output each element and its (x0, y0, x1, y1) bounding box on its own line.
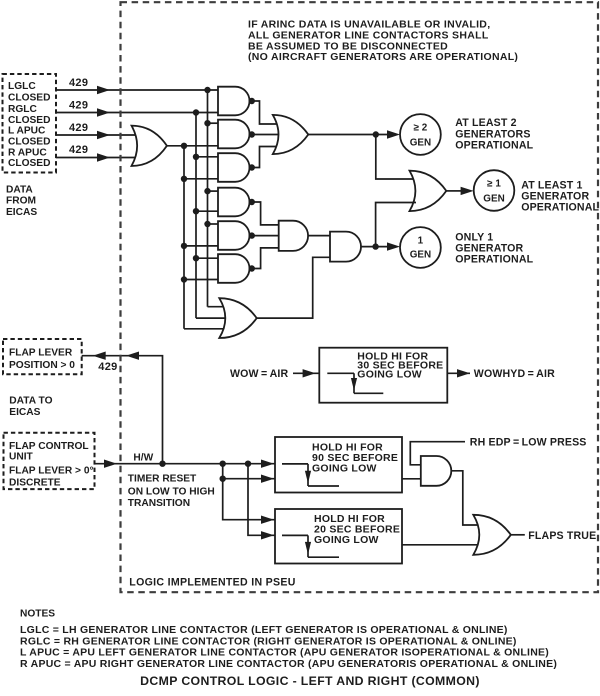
junction dot bus2 G4 tap (193, 208, 199, 214)
svg-text:L APUC: L APUC (8, 126, 46, 137)
wire G5 output to AND-A input2 (250, 235, 279, 237)
svg-text:R APUC = APU RIGHT GENERATOR L: R APUC = APU RIGHT GENERATOR LINE CONTAC… (20, 658, 557, 670)
wire bus1 to OR-big bottom input (184, 328, 230, 330)
junction dot bus1 G3 tap (181, 176, 187, 182)
wire OR1 output to GE2 circle (308, 134, 388, 136)
svg-text:1: 1 (418, 236, 424, 247)
wire bus1 tap to G5 bottom (184, 245, 218, 247)
wire G2 output to OR1 input2 (250, 134, 281, 136)
circle 1 GEN (400, 227, 441, 268)
timer symbol box90 low level (308, 485, 339, 487)
timer symbol box30 low level (354, 392, 383, 394)
svg-text:LGLC = LH GENERATOR LINE CONTA: LGLC = LH GENERATOR LINE CONTACTOR (LEFT… (20, 624, 508, 636)
arrow on R APUC wire (97, 153, 110, 161)
svg-text:FROM: FROM (6, 195, 36, 206)
arrow into 1GEN circle (387, 242, 400, 250)
wire OR-in output to gate G2 (166, 145, 218, 147)
wire bus1 tap to G3 bottom (184, 178, 218, 180)
and-gate G4 (218, 188, 250, 217)
svg-text:NOTES: NOTES (20, 609, 55, 620)
wire G4 output to AND-A input1 (250, 202, 279, 225)
svg-text:FLAP LEVER > 0°: FLAP LEVER > 0° (9, 466, 94, 477)
arrow into box90 input1 (261, 460, 274, 468)
arrow left mid 429 line (126, 352, 139, 360)
junction dot G6 output (249, 265, 255, 271)
svg-text:GOING LOW: GOING LOW (312, 462, 377, 474)
arrow into box20 input1 (261, 516, 274, 524)
timer symbol box20 high level (282, 534, 308, 536)
svg-text:OPERATIONAL: OPERATIONAL (455, 254, 533, 266)
box20 HOLD HI 20 SEC (275, 509, 402, 564)
node bus1 APU vertical (183, 146, 185, 329)
wire bus1 tap to G6 bottom (184, 279, 218, 281)
svg-text:429: 429 (69, 77, 88, 89)
svg-text:FLAP CONTROL: FLAP CONTROL (9, 441, 89, 452)
svg-text:RH EDP = LOW PRESS: RH EDP = LOW PRESS (470, 437, 587, 449)
svg-text:GEN: GEN (483, 193, 504, 204)
timer symbol box90 down arrow (305, 471, 311, 484)
box30 HOLD HI 30 SEC (319, 348, 447, 403)
wire branch B vertical to box20 input2 (248, 464, 276, 536)
circle GE2 GEN (400, 114, 441, 155)
or-gate OR1 (273, 115, 309, 154)
junction dot 1GEN branch (372, 243, 378, 249)
svg-text:GOING LOW: GOING LOW (314, 534, 379, 546)
or-gate OR3 (473, 515, 511, 555)
svg-text:POSITION > 0: POSITION > 0 (9, 360, 75, 371)
svg-text:≥ 1: ≥ 1 (487, 179, 501, 190)
box90 HOLD HI 90 SEC (275, 437, 402, 493)
and-gate AND-C (421, 456, 451, 486)
and-gate G2 (218, 120, 250, 149)
wire bus2 tap to G6 top (196, 257, 218, 259)
and-gate G6 (218, 254, 249, 283)
timer symbol box20 low level (308, 556, 339, 558)
wire branch A vertical (223, 464, 276, 520)
arrow on RGLC wire (97, 108, 110, 116)
junction dot bus1 G6 tap (181, 276, 187, 282)
fcu dashed box FLAP CONTROL UNIT (4, 433, 95, 489)
wire GE2 branch down to OR2 input1 (376, 135, 416, 180)
svg-text:≥ 2: ≥ 2 (414, 123, 428, 134)
svg-text:CLOSED: CLOSED (8, 93, 50, 104)
wire bus2 tap to G3 top (196, 156, 218, 158)
wire WOW=AIR into box30 (293, 372, 319, 374)
junction dot bus2 G3 tap (193, 154, 199, 160)
svg-text:AT LEAST 2: AT LEAST 2 (455, 117, 516, 129)
junction dot G5 output (249, 232, 255, 238)
svg-text:DISCRETE: DISCRETE (9, 478, 61, 489)
junction dot HW branch A (220, 461, 226, 467)
junction dot bus3 G5 tap (204, 221, 210, 227)
wire R APUC 429 (56, 157, 140, 159)
svg-text:EICAS: EICAS (9, 407, 40, 418)
junction dot G3 output (249, 164, 255, 170)
svg-text:FLAP LEVER: FLAP LEVER (9, 348, 73, 359)
wire AND-A output to AND-B input1 (308, 235, 330, 237)
wire bus3 tap to G5 top (208, 223, 219, 225)
svg-text:EICAS: EICAS (6, 207, 37, 218)
svg-text:RGLC: RGLC (8, 104, 38, 115)
wire bus2 to OR-big middle input (196, 317, 232, 319)
pseu dashed box border (121, 2, 599, 592)
svg-text:CLOSED: CLOSED (8, 158, 50, 169)
junction dot bus3 G2 tap (204, 120, 210, 126)
arrow left into flap-lever box (93, 352, 106, 360)
svg-text:(NO AIRCRAFT GENERATORS ARE OP: (NO AIRCRAFT GENERATORS ARE OPERATIONAL) (248, 51, 518, 63)
flap-lever dashed box FLAP LEVER POSITION (3, 339, 82, 374)
arrow WOWHYD (457, 369, 470, 377)
arrow on LGLC wire (97, 86, 110, 94)
junction dot bus3 G4 tap (204, 188, 210, 194)
arrow into box90 input2 (261, 475, 274, 483)
junction dot GE2 branch (373, 131, 379, 137)
and-gate G3 (218, 153, 250, 182)
wire H/W main line (95, 463, 277, 465)
svg-text:DATA TO: DATA TO (9, 395, 52, 406)
timer symbol box20 drop edge (307, 535, 309, 557)
arrow into box20 input2 (261, 531, 274, 539)
wire AND-B output to 1GEN circle (361, 246, 388, 248)
junction dot bus2/RGLC (193, 109, 199, 115)
junction dot bus1 OR-in output (181, 143, 187, 149)
junction dot bus2 G6 tap (193, 255, 199, 261)
svg-text:429: 429 (69, 122, 88, 134)
circle GE1 GEN (474, 170, 515, 211)
wire RGLC 429 (56, 112, 218, 114)
wire box90 output to AND-C input2 (402, 478, 421, 480)
or-gate OR-big (219, 298, 256, 338)
wire branch A to box90 input2 (223, 478, 276, 480)
svg-text:429: 429 (98, 361, 117, 373)
wire OR3 output FLAPS TRUE (511, 534, 525, 536)
wire RH EDP to AND-C input1 (410, 442, 465, 465)
junction dot HW-flap (159, 461, 165, 467)
svg-text:429: 429 (69, 100, 88, 112)
svg-text:GOING LOW: GOING LOW (357, 369, 422, 381)
arrow after FCU box (104, 460, 117, 468)
arrow WOW=AIR (303, 369, 316, 377)
wire G1 output to OR1 input1 (250, 101, 281, 124)
wire bus2 tap to G4 bottom (196, 210, 218, 212)
wire box30 output WOWHYD (447, 372, 470, 374)
node bus2 RGLC vertical (195, 113, 197, 319)
junction dot bus3/LGLC (204, 87, 210, 93)
svg-text:WOW = AIR: WOW = AIR (230, 368, 288, 380)
svg-text:GENERATORS: GENERATORS (455, 128, 530, 140)
wire bus3 tap to G4 top (208, 190, 219, 192)
and-gate G5 (218, 221, 249, 250)
svg-text:429: 429 (69, 144, 88, 156)
svg-text:R APUC: R APUC (8, 147, 47, 158)
wire bus3 tap to G2 top (208, 122, 219, 124)
timer symbol box30 drop edge (353, 373, 355, 393)
svg-text:H/W: H/W (133, 453, 153, 464)
svg-text:DCMP CONTROL LOGIC - LEFT AND: DCMP CONTROL LOGIC - LEFT AND RIGHT (COM… (140, 674, 480, 688)
svg-text:WOWHYD = AIR: WOWHYD = AIR (474, 368, 555, 380)
svg-text:OPERATIONAL: OPERATIONAL (521, 202, 599, 214)
svg-text:LOGIC IMPLEMENTED IN PSEU: LOGIC IMPLEMENTED IN PSEU (129, 577, 295, 589)
arrow into GE2 circle (387, 130, 400, 138)
junction dot G1 output (249, 98, 255, 104)
junction dot bus1 G5 tap (181, 243, 187, 249)
wire LGLC 429 (56, 89, 218, 91)
junction dot HW branch B (245, 461, 251, 467)
junction dot G4 output (249, 199, 255, 205)
timer symbol box30 down arrow (351, 378, 357, 391)
node bus3 LGLC vertical (207, 90, 209, 307)
svg-text:GEN: GEN (410, 250, 431, 261)
and-gate AND-A (279, 221, 308, 251)
arrow into GE1 circle (461, 187, 474, 195)
svg-text:GEN: GEN (410, 138, 431, 149)
timer symbol box90 drop edge (307, 464, 309, 486)
wire 1GEN branch up to OR2 input2 (376, 203, 416, 247)
or-gate OR2 (410, 171, 447, 211)
svg-text:L APUC = APU LEFT GENERATOR LI: L APUC = APU LEFT GENERATOR LINE CONTACT… (20, 647, 549, 659)
wire bus3 to OR-big top input (208, 306, 231, 308)
svg-text:OPERATIONAL: OPERATIONAL (455, 140, 533, 152)
svg-text:FLAPS TRUE: FLAPS TRUE (528, 530, 596, 542)
junction dot branch A box90 (220, 476, 226, 482)
timer symbol box30 high level (327, 372, 354, 374)
timer symbol box90 high level (282, 463, 308, 465)
wire L APUC 429 (56, 134, 140, 136)
wire OR-big output to AND-B input2 (257, 257, 330, 318)
svg-text:RGLC = RH GENERATOR LINE CONTA: RGLC = RH GENERATOR LINE CONTACTOR (RIGH… (20, 635, 517, 647)
and-gate G1 (218, 87, 250, 116)
arrow on L APUC wire (97, 131, 110, 139)
and-gate AND-B (330, 232, 361, 262)
wire 429 return to flap-lever box (82, 356, 163, 464)
wire G6 output to AND-A input3 (250, 248, 279, 269)
svg-text:TRANSITION: TRANSITION (128, 498, 190, 509)
svg-text:LGLC: LGLC (8, 81, 36, 92)
svg-text:DATA: DATA (6, 185, 33, 196)
svg-text:UNIT: UNIT (9, 452, 34, 463)
wire G3 output to OR1 input3 (250, 147, 281, 168)
svg-text:TIMER RESET: TIMER RESET (128, 473, 197, 484)
svg-text:CLOSED: CLOSED (8, 115, 50, 126)
wire OR2 output to GE1 circle (446, 190, 461, 192)
wire box20 output to OR3 input2 (402, 544, 480, 546)
wire AND-C output to OR3 input1 (451, 471, 480, 525)
junction dot G2 output (249, 131, 255, 137)
input dashed box DATA FROM EICAS (3, 74, 57, 173)
or-gate U1 L-APUC/R-APUC (132, 126, 167, 166)
svg-text:ON LOW TO HIGH: ON LOW TO HIGH (128, 486, 215, 497)
svg-text:CLOSED: CLOSED (8, 137, 50, 148)
timer symbol box20 down arrow (305, 542, 311, 555)
